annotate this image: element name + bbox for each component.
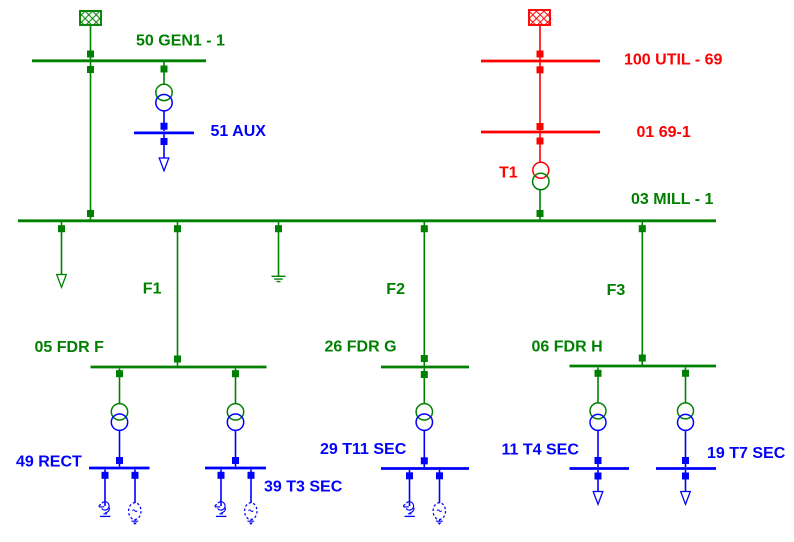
wire bus 49 to motor xyxy=(134,470,136,504)
node square below bus 49 at lumped load xyxy=(102,472,109,479)
lumped load symbol on bus 49 xyxy=(99,502,110,517)
transformer T11 primary winding xyxy=(416,404,432,420)
transformer T-AUX primary winding xyxy=(156,84,172,100)
wire bus 06 to transformer T4 xyxy=(597,368,599,404)
bus 50 GEN1 - 1 xyxy=(32,59,206,62)
node square below bus 06 at T7 feeder xyxy=(682,370,689,377)
wire bus 100 to bus 01 xyxy=(539,63,541,131)
wire bus 05 to transformer T3 xyxy=(235,369,237,405)
transformer T1 primary winding xyxy=(533,162,549,178)
node square below bus 03 at feeder F1 xyxy=(174,225,181,232)
wire bus 11 to static load arrow xyxy=(597,470,599,492)
bus 03 MILL - 1 xyxy=(18,219,716,222)
svg-text:11 T4 SEC: 11 T4 SEC xyxy=(502,442,580,459)
wire T4 to bus 11 xyxy=(597,430,599,467)
svg-text:03 MILL - 1: 03 MILL - 1 xyxy=(631,191,713,208)
wire bus 26 to transformer T11 xyxy=(423,369,425,405)
transformer T7 secondary winding xyxy=(678,414,694,430)
wire bus 50 to transformer T-AUX xyxy=(163,62,165,85)
node square below bus 39 at motor xyxy=(248,472,255,479)
static load arrow below bus 03 xyxy=(57,275,67,288)
wire T-AUX to bus 51 xyxy=(163,111,165,131)
utility UTIL symbol xyxy=(529,10,550,25)
node square below bus 03 at ground branch xyxy=(275,225,282,232)
bus 26 FDR G xyxy=(381,366,469,369)
svg-text:49 RECT: 49 RECT xyxy=(16,454,82,471)
wire T7 to bus 19 xyxy=(685,430,687,467)
bus 29 T11 SEC xyxy=(381,467,469,470)
node square below bus 50 at aux feeder xyxy=(161,66,168,73)
node square below bus 29 at motor xyxy=(436,472,443,479)
node square below bus 01 xyxy=(537,138,544,145)
node square below bus 100 xyxy=(537,66,544,73)
svg-text:39 T3 SEC: 39 T3 SEC xyxy=(264,479,343,496)
svg-text:F3: F3 xyxy=(607,282,626,299)
motor symbol on bus 49 xyxy=(129,503,141,525)
transformer T2 primary winding xyxy=(111,404,127,420)
node square below bus 03 at static load feeder xyxy=(58,225,65,232)
bus 39 T3 SEC xyxy=(205,467,266,470)
wire bus 03 to ground xyxy=(278,222,280,276)
transformer T11 secondary winding xyxy=(416,414,432,430)
node square below bus 03 at feeder F3 xyxy=(639,225,646,232)
node square above bus 29 xyxy=(421,457,428,464)
svg-text:19 T7 SEC: 19 T7 SEC xyxy=(707,445,786,462)
wire T2 to bus 49 xyxy=(119,430,121,466)
wire bus 39 to motor xyxy=(250,470,252,504)
node square below bus 39 at lumped load xyxy=(218,472,225,479)
wire GEN1 to bus 50 xyxy=(90,26,92,60)
node square above bus 06 at F3 xyxy=(639,355,646,362)
wire bus 01 to transformer T1 xyxy=(539,134,541,163)
transformer T3 secondary winding xyxy=(227,414,243,430)
transformer T7 primary winding xyxy=(678,403,694,419)
svg-text:51 AUX: 51 AUX xyxy=(211,123,267,140)
bus 06 FDR H xyxy=(570,365,717,368)
wire F3 from bus 03 to bus 06 xyxy=(641,222,643,365)
transformer T4 secondary winding xyxy=(590,414,606,430)
static load arrow below bus 19 xyxy=(681,492,691,505)
svg-text:01 69-1: 01 69-1 xyxy=(637,124,691,141)
wire bus 39 to lumped load xyxy=(220,470,222,507)
bus 01 69-1 xyxy=(481,131,600,134)
wire T11 to bus 29 xyxy=(423,430,425,467)
svg-text:26 FDR G: 26 FDR G xyxy=(325,339,397,356)
wire T1 to bus 03 xyxy=(539,190,541,220)
wire bus 49 to lumped load xyxy=(104,470,106,507)
node square below bus 05 right feeder xyxy=(232,370,239,377)
bus 100 UTIL - 69 xyxy=(481,60,600,63)
node square below bus 26 at T11 feeder xyxy=(421,371,428,378)
bus 51 AUX xyxy=(134,131,194,134)
node square above bus 19 xyxy=(682,457,689,464)
wire F2 from bus 03 to bus 26 xyxy=(423,222,425,366)
node square below bus 51 xyxy=(161,138,168,145)
node square above bus 05 at F1 xyxy=(174,356,181,363)
transformer T1 secondary winding xyxy=(533,173,549,189)
ground symbol xyxy=(272,276,286,281)
wire bus 51 to static load arrow xyxy=(163,134,165,158)
node square above bus 11 xyxy=(595,457,602,464)
lumped load symbol on bus 29 xyxy=(404,502,415,517)
node square above bus 49 xyxy=(116,457,123,464)
node square below bus 19 xyxy=(682,473,689,480)
svg-text:100 UTIL - 69: 100 UTIL - 69 xyxy=(624,52,723,69)
svg-text:50 GEN1 - 1: 50 GEN1 - 1 xyxy=(136,33,225,50)
generator GEN1 symbol xyxy=(80,11,101,25)
static load arrow below bus 51 xyxy=(159,158,169,171)
node square below bus 29 at lumped load xyxy=(406,472,413,479)
node square below bus 03 at feeder F2 xyxy=(421,225,428,232)
node square above bus 01 xyxy=(537,123,544,130)
wire bus 29 to motor xyxy=(439,470,441,503)
node square below bus 50 at gen feeder xyxy=(87,66,94,73)
transformer T-AUX secondary winding xyxy=(156,95,172,111)
node square above bus 03 at T1 feeder xyxy=(537,210,544,217)
node square below bus 05 left feeder xyxy=(116,370,123,377)
wire bus 05 to transformer T2 xyxy=(119,369,121,405)
static load arrow below bus 11 xyxy=(593,492,603,505)
wire F1 from bus 03 to bus 05 xyxy=(177,222,179,366)
wire bus 19 to static load arrow xyxy=(685,470,687,492)
wire bus 06 to transformer T7 xyxy=(685,368,687,404)
svg-text:06 FDR H: 06 FDR H xyxy=(532,339,603,356)
motor symbol on bus 39 xyxy=(245,503,257,525)
wire T3 to bus 39 xyxy=(235,430,237,466)
svg-text:T1: T1 xyxy=(499,165,518,182)
wire bus 50 to bus 03 xyxy=(90,62,92,220)
svg-text:29 T11 SEC: 29 T11 SEC xyxy=(320,441,407,458)
transformer T2 secondary winding xyxy=(111,414,127,430)
node square below bus 49 at motor xyxy=(132,472,139,479)
svg-text:05 FDR F: 05 FDR F xyxy=(35,339,105,356)
transformer T4 primary winding xyxy=(590,403,606,419)
wire bus 03 to static load arrow xyxy=(61,222,63,275)
node square above bus 51 xyxy=(161,123,168,130)
wire bus 29 to lumped load xyxy=(409,470,411,506)
transformer T3 primary winding xyxy=(227,404,243,420)
node square above bus 50 at gen feeder xyxy=(87,51,94,58)
node square above bus 39 xyxy=(232,457,239,464)
node square below bus 06 at T4 feeder xyxy=(595,370,602,377)
bus 11 T4 SEC xyxy=(570,467,630,470)
svg-text:F1: F1 xyxy=(143,281,162,298)
bus 49 RECT xyxy=(89,467,150,470)
node square above bus 03 at gen feeder xyxy=(87,210,94,217)
motor symbol on bus 29 xyxy=(433,503,445,525)
node square below bus 11 xyxy=(595,473,602,480)
bus 19 T7 SEC xyxy=(656,467,716,470)
wire UTIL to bus 100 xyxy=(539,26,541,60)
node square above bus 100 xyxy=(537,51,544,58)
node square above bus 26 at F2 xyxy=(421,355,428,362)
lumped load symbol on bus 39 xyxy=(215,502,226,517)
bus 05 FDR F xyxy=(91,366,267,369)
svg-text:F2: F2 xyxy=(386,281,405,298)
